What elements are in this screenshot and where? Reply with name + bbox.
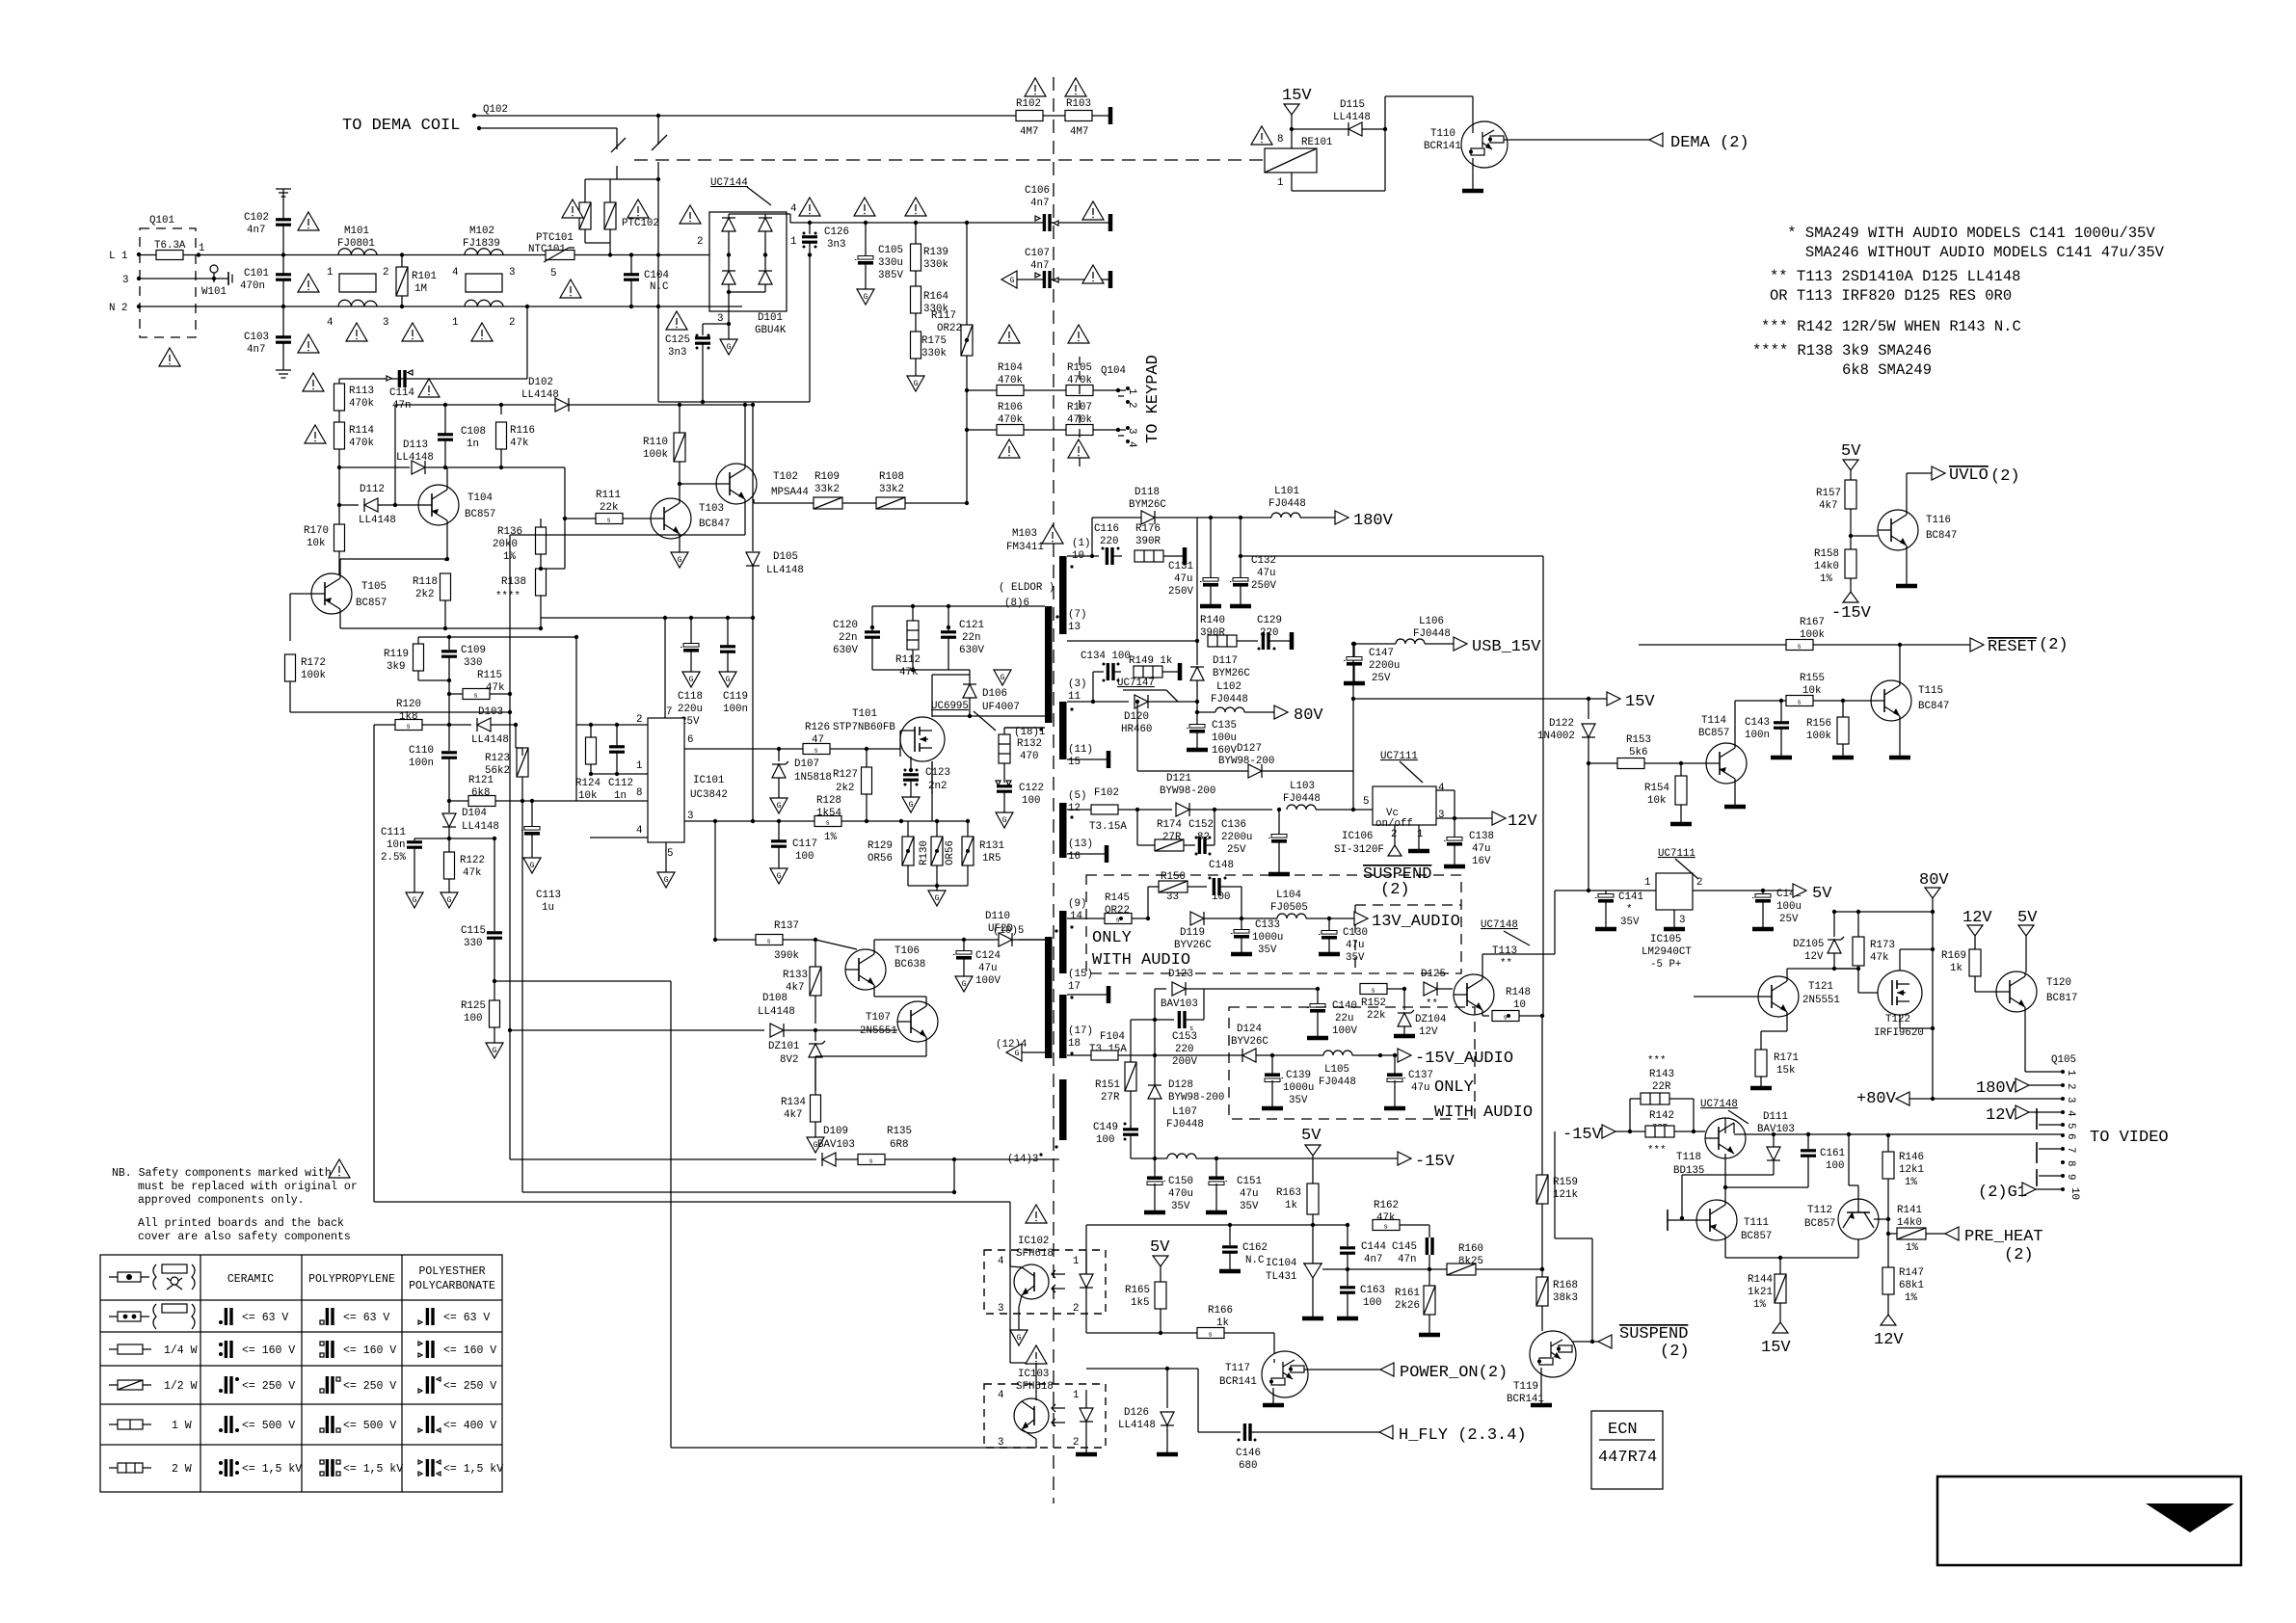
svg-text:9: 9	[2065, 1174, 2076, 1180]
wire pin2 row to left	[576, 725, 591, 801]
diode D104 LL4148	[442, 801, 499, 840]
svg-text:100: 100	[1826, 1160, 1844, 1172]
svg-text:STP7NB60FB: STP7NB60FB	[833, 722, 895, 733]
svg-text:(2)G1: (2)G1	[1978, 1184, 2027, 1202]
svg-text:C139: C139	[1286, 1070, 1311, 1081]
inductor L107 FJ0448	[1155, 1106, 1398, 1160]
capacitor C113 1u	[521, 799, 561, 914]
svg-text:2: 2	[1391, 829, 1397, 840]
resistor R142 22R ***	[1645, 1110, 1674, 1157]
capacitor C137 47u	[1384, 1053, 1433, 1108]
wire 180V rail drop to R159 column	[1542, 556, 1544, 1016]
inductor L106 FJ0448	[1352, 616, 1541, 656]
svg-text:330: 330	[464, 657, 482, 669]
capacitor C146 680	[1198, 1423, 1379, 1472]
svg-text:R145: R145	[1105, 892, 1130, 904]
svg-text:100k: 100k	[301, 670, 326, 681]
diode D103 LL4148	[449, 706, 518, 748]
svg-text:1: 1	[790, 236, 796, 248]
svg-text:C108: C108	[461, 426, 486, 438]
svg-text:C125: C125	[665, 334, 690, 346]
resistor R113 470k	[334, 379, 374, 422]
svg-text:T111: T111	[1744, 1217, 1769, 1229]
resistor R172 100k	[285, 641, 511, 712]
svg-text:R101: R101	[412, 271, 437, 282]
svg-text:13: 13	[1068, 622, 1081, 633]
resistor R114 470k	[334, 422, 374, 505]
svg-text:R174: R174	[1157, 819, 1182, 831]
svg-text:C145: C145	[1392, 1241, 1417, 1253]
svg-text:DZ104: DZ104	[1415, 1014, 1446, 1025]
svg-text:TO DEMA COIL: TO DEMA COIL	[342, 117, 460, 135]
svg-text:LL4148: LL4148	[471, 734, 509, 746]
svg-text:1000u: 1000u	[1252, 932, 1283, 944]
svg-text:SFH618: SFH618	[1016, 1248, 1054, 1260]
svg-text:4: 4	[998, 1390, 1003, 1401]
svg-text:5: 5	[667, 848, 673, 860]
transistor T110 BCR141	[1424, 121, 1649, 191]
svg-text:R167: R167	[1800, 617, 1825, 628]
svg-text:R102: R102	[1016, 98, 1041, 110]
diode D112 LL4148	[337, 484, 418, 526]
svg-text:8: 8	[636, 787, 642, 799]
svg-text:200V: 200V	[1172, 1056, 1197, 1068]
svg-text:3: 3	[2065, 1097, 2076, 1103]
svg-text:POWER_ON(2): POWER_ON(2)	[1400, 1364, 1508, 1382]
svg-text:R176: R176	[1135, 523, 1161, 535]
svg-text:14k0: 14k0	[1814, 561, 1839, 572]
svg-text:BAV103: BAV103	[1757, 1124, 1795, 1135]
transistor T103 BC847	[651, 484, 730, 568]
capacitor C149 100	[1093, 1122, 1155, 1158]
transistor T117 BCR141	[1219, 1351, 1380, 1405]
svg-text:ONLY: ONLY	[1434, 1078, 1474, 1097]
svg-text:C103: C103	[244, 332, 269, 343]
svg-text:C120: C120	[833, 620, 858, 631]
svg-text:C136: C136	[1221, 819, 1246, 831]
resistor R123 56k2	[485, 748, 528, 803]
svg-text:33k2: 33k2	[814, 484, 840, 495]
resistor R127 2k2	[833, 747, 872, 821]
svg-text:2n2: 2n2	[928, 781, 947, 792]
resistor R154 10k	[1644, 763, 1692, 824]
capacitor C140 22u 100V	[1307, 989, 1357, 1038]
resistor R126 47	[779, 722, 877, 756]
net POWER_ON(2)	[1380, 1363, 1508, 1382]
svg-text:<= 400 V: <= 400 V	[443, 1420, 496, 1432]
svg-text:C117: C117	[792, 838, 817, 850]
svg-text:15: 15	[1068, 757, 1081, 768]
svg-text:C114: C114	[389, 387, 414, 399]
svg-text:L106: L106	[1419, 616, 1444, 627]
svg-text:R119: R119	[384, 649, 409, 660]
wire Q102 down to relay contact	[652, 114, 667, 179]
svg-text:UC7144: UC7144	[710, 177, 748, 189]
svg-text:R146: R146	[1899, 1152, 1924, 1163]
wire TL431 ref row y=1317	[1322, 1268, 1448, 1270]
svg-text:T3.15A: T3.15A	[1089, 821, 1127, 833]
wire top row y661 (from T105 area)	[340, 628, 578, 725]
wire PTC top rail	[585, 177, 660, 181]
svg-text:* SMA249 WITH AUDIO MODELS C14: * SMA249 WITH AUDIO MODELS C141 1000u/35…	[1778, 225, 2155, 242]
diode D106 UF4007	[932, 684, 1045, 718]
svg-text:470u: 470u	[1168, 1188, 1193, 1200]
resistor R146 12k1 1%	[1882, 1135, 1924, 1219]
svg-text:LL4148: LL4148	[396, 452, 434, 464]
svg-text:16V: 16V	[1472, 856, 1491, 867]
svg-text:BYV26C: BYV26C	[1231, 1036, 1268, 1048]
svg-text:470: 470	[1020, 751, 1038, 762]
svg-text:LL4148: LL4148	[1333, 112, 1371, 123]
svg-text:<= 500 V: <= 500 V	[242, 1420, 295, 1432]
svg-text:4: 4	[790, 203, 796, 215]
svg-text:C101: C101	[244, 268, 269, 279]
svg-text:35V: 35V	[1258, 945, 1277, 956]
svg-text:TL431: TL431	[1266, 1271, 1296, 1283]
svg-text:H_FLY (2.3.4): H_FLY (2.3.4)	[1399, 1426, 1527, 1445]
svg-text:250V: 250V	[1251, 580, 1276, 592]
resistor R131 1R5	[962, 819, 1004, 886]
svg-text:FJ0448: FJ0448	[1211, 694, 1248, 705]
svg-text:C115: C115	[461, 925, 486, 937]
resistor R105 470k	[1066, 362, 1120, 396]
resistor R133 4k7	[783, 938, 821, 1024]
resistor R101 1M	[396, 253, 437, 308]
transistor T116 BC847	[1851, 473, 1957, 586]
svg-text:5V: 5V	[1301, 1127, 1322, 1145]
svg-text:80V: 80V	[1919, 871, 1949, 890]
svg-text:5V: 5V	[1150, 1238, 1170, 1257]
resistor R132 470	[999, 728, 1045, 783]
svg-text:R141: R141	[1897, 1205, 1922, 1216]
svg-text:C113: C113	[536, 890, 561, 901]
svg-text:3: 3	[998, 1303, 1003, 1315]
svg-text:1: 1	[1073, 1390, 1079, 1401]
svg-text:R169: R169	[1941, 950, 1966, 962]
resistor R176 390R	[1135, 523, 1185, 565]
svg-text:121k: 121k	[1553, 1189, 1578, 1201]
svg-text:UC6995: UC6995	[931, 701, 969, 712]
resistor R174 27R	[1137, 810, 1195, 851]
svg-text:FJ1839: FJ1839	[463, 238, 500, 250]
svg-text:17: 17	[1068, 981, 1081, 993]
transformer secondary winding 10-13	[1059, 556, 1067, 634]
svg-text:BC638: BC638	[894, 959, 925, 971]
svg-text:6k8 SMA249: 6k8 SMA249	[1752, 361, 1932, 379]
diode D119 BYV26C	[1174, 912, 1243, 951]
resistor R102 4M7	[1016, 98, 1043, 138]
svg-text:FJ0801: FJ0801	[337, 238, 375, 250]
capacitor C152 82	[1188, 810, 1215, 856]
svg-text:33k2: 33k2	[879, 484, 904, 495]
svg-text:12V: 12V	[1962, 909, 1992, 927]
svg-text:C111: C111	[381, 827, 406, 838]
5V supply T120	[2017, 909, 2038, 972]
svg-text:100: 100	[795, 851, 814, 863]
svg-text:R127: R127	[833, 769, 858, 781]
svg-text:UC7148: UC7148	[1700, 1099, 1738, 1110]
wire bottom loop of input	[658, 253, 812, 404]
svg-text:10n: 10n	[387, 839, 405, 851]
svg-text:D127: D127	[1237, 743, 1262, 755]
svg-text:IC105: IC105	[1650, 934, 1681, 945]
diode D123 BAV103	[1155, 969, 1320, 1055]
svg-text:LL4148: LL4148	[462, 821, 499, 833]
isolation barrier dashed lines	[634, 159, 1265, 161]
svg-text:1n: 1n	[467, 439, 479, 450]
svg-text:<= 500 V: <= 500 V	[343, 1420, 396, 1432]
capacitor C111 10n 2.5%	[381, 827, 449, 908]
svg-text:R123: R123	[485, 753, 510, 764]
svg-text:4: 4	[1126, 441, 1137, 447]
wire startup rail y485	[337, 466, 565, 519]
svg-text:s: s	[1189, 1025, 1193, 1033]
svg-text:25V: 25V	[1227, 844, 1246, 856]
svg-text:47k: 47k	[1870, 952, 1888, 964]
svg-text:1%: 1%	[824, 832, 837, 843]
svg-text:82: 82	[1197, 832, 1210, 843]
ground (IC102 emitter)	[1010, 1330, 1028, 1345]
svg-text:12k1: 12k1	[1899, 1164, 1924, 1176]
svg-text:T122: T122	[1885, 1014, 1910, 1025]
diode D102 LL4148	[521, 377, 753, 412]
svg-text:BYW98-200: BYW98-200	[1160, 785, 1215, 797]
svg-text:T119: T119	[1513, 1381, 1538, 1393]
transistor T119 BCR141	[1507, 1331, 1600, 1405]
svg-text:390k: 390k	[774, 950, 799, 962]
diode D127 BYW98-200	[1135, 642, 1355, 811]
capacitor C107 4n7 + ground arrow	[1001, 248, 1110, 288]
svg-text:ECN: ECN	[1608, 1421, 1638, 1439]
svg-text:C110: C110	[409, 745, 434, 757]
svg-text:D123: D123	[1168, 969, 1193, 980]
resistor R165 1k5	[1125, 1238, 1170, 1335]
inductor L104 FJ0505	[1241, 890, 1331, 920]
svg-text:D117: D117	[1213, 655, 1238, 667]
diode D124 BYV26C	[1231, 1024, 1323, 1062]
resistor R119 3k9	[384, 637, 449, 680]
wire C115 node right	[494, 981, 671, 1448]
svg-text:D121: D121	[1166, 773, 1191, 785]
svg-text:C163: C163	[1360, 1285, 1385, 1296]
svg-text:BAV103: BAV103	[1161, 998, 1198, 1010]
svg-text:3: 3	[717, 313, 723, 325]
warning triangles startup	[305, 425, 326, 443]
svg-text:C134 100: C134 100	[1081, 651, 1131, 662]
bridge rectifier D101 GBU4K	[697, 177, 796, 336]
svg-text:T105: T105	[361, 581, 387, 593]
dashed box ONLY WITH AUDIO (13V)	[1086, 875, 1461, 973]
capacitor C138 47u 16V	[1444, 818, 1494, 867]
capacitor C106 4n7	[1025, 185, 1110, 231]
svg-text:OR56: OR56	[868, 853, 893, 865]
svg-text:D111: D111	[1763, 1111, 1788, 1123]
svg-text:UC3842: UC3842	[690, 789, 728, 801]
svg-text:390R: 390R	[1200, 627, 1225, 639]
resistor R153 5k6	[1589, 734, 1706, 769]
svg-text:RE101: RE101	[1301, 137, 1332, 148]
antenna bar T111 base	[1668, 1210, 1696, 1231]
svg-text:+80V: +80V	[1856, 1090, 1897, 1108]
connector Q105 TO VIDEO	[2037, 1054, 2169, 1200]
svg-text:LL4148: LL4148	[521, 389, 559, 401]
svg-text:2200u: 2200u	[1369, 660, 1400, 672]
svg-text:BC847: BC847	[1926, 530, 1957, 542]
svg-text:4k7: 4k7	[786, 982, 804, 994]
svg-text:FJ0448: FJ0448	[1413, 628, 1451, 640]
svg-text:R139: R139	[923, 247, 948, 258]
wire T106 emitter to D110 row / C124	[962, 938, 1045, 942]
resistor R108 33k2	[754, 471, 969, 509]
svg-text:BYM26C: BYM26C	[1213, 668, 1250, 679]
svg-text:8: 8	[2065, 1160, 2076, 1166]
svg-text:4n7: 4n7	[247, 344, 265, 356]
svg-text:C147: C147	[1369, 648, 1394, 659]
svg-text:4M7: 4M7	[1070, 126, 1088, 138]
wire T111/T112 emitter row to R144	[1725, 1256, 1858, 1260]
svg-text:C141: C141	[1618, 891, 1643, 903]
svg-text:SMA246 WITHOUT AUDIO MODELS C1: SMA246 WITHOUT AUDIO MODELS C141 47u/35V	[1778, 244, 2165, 261]
svg-text:(11): (11)	[1068, 744, 1093, 756]
svg-text:UF4007: UF4007	[982, 702, 1020, 713]
svg-text:R113: R113	[349, 386, 374, 397]
svg-text:IRFI9620: IRFI9620	[1874, 1027, 1924, 1039]
svg-text:15k: 15k	[1776, 1065, 1795, 1077]
svg-text:OR22: OR22	[937, 323, 962, 334]
svg-text:DZ105: DZ105	[1793, 939, 1824, 950]
resistor R135 6R8	[858, 1126, 1059, 1166]
svg-text:OR22: OR22	[1105, 905, 1130, 917]
resistor R112 47k	[895, 621, 921, 678]
svg-text:100: 100	[1096, 1134, 1114, 1146]
svg-text:FM3411: FM3411	[1006, 542, 1044, 553]
resistor R159 121k	[1536, 1016, 1578, 1277]
transistor T115 BC847	[1871, 645, 1949, 758]
svg-text:OR56: OR56	[945, 840, 956, 865]
svg-text:F104: F104	[1100, 1031, 1125, 1043]
svg-text:4n7: 4n7	[247, 225, 265, 236]
svg-text:14: 14	[1070, 911, 1082, 922]
wire primary (12)4 to ground arrow	[1006, 1044, 1045, 1061]
svg-text:(1): (1)	[1072, 538, 1090, 549]
wire feedback bottom rail y=1383	[1086, 1332, 1197, 1334]
resistor R130 0R56 (vertical labels)	[919, 819, 956, 886]
svg-text:1: 1	[452, 317, 458, 329]
svg-text:C138: C138	[1469, 831, 1494, 842]
svg-text:3: 3	[1438, 810, 1444, 821]
svg-text:3: 3	[383, 317, 388, 329]
svg-text:1N5818: 1N5818	[794, 772, 832, 784]
svg-text:R163: R163	[1276, 1187, 1301, 1199]
capacitor C102	[244, 199, 291, 255]
svg-text:1/2 W: 1/2 W	[164, 1380, 198, 1393]
svg-text:100: 100	[464, 1013, 482, 1024]
IC101 UC3842	[576, 618, 779, 888]
svg-text:D101: D101	[758, 312, 783, 324]
svg-text:C149: C149	[1093, 1122, 1118, 1133]
svg-text:C140: C140	[1332, 1000, 1357, 1012]
svg-text:1R5: 1R5	[982, 853, 1001, 865]
capacitor C108 1n	[438, 414, 486, 467]
svg-text:630V: 630V	[833, 645, 858, 656]
resistor R139 330k	[911, 223, 948, 286]
svg-text:BCR141: BCR141	[1424, 141, 1461, 152]
svg-text:330k: 330k	[921, 348, 947, 359]
capacitor C145 47n	[1392, 1237, 1432, 1271]
ground (R175)	[907, 376, 924, 391]
svg-text:7: 7	[666, 706, 672, 718]
svg-text:2N5551: 2N5551	[1802, 995, 1840, 1006]
svg-text:UC7111: UC7111	[1658, 848, 1695, 860]
svg-text:R132: R132	[1017, 738, 1042, 750]
svg-text:100k: 100k	[1806, 731, 1831, 742]
svg-text:R110: R110	[643, 437, 668, 448]
wire opto bottom loop	[671, 1447, 1036, 1449]
wire relay to T110	[1385, 96, 1473, 129]
legend capacitor cells: polyesther column	[418, 1308, 503, 1477]
svg-text:2: 2	[1126, 402, 1137, 408]
svg-text:330k: 330k	[923, 259, 948, 271]
svg-text:ONLY: ONLY	[1092, 929, 1132, 947]
capacitor C116 220	[1094, 523, 1122, 565]
inductor L101 FJ0448	[1241, 486, 1394, 530]
svg-text:22k: 22k	[600, 502, 618, 514]
svg-text:8k25: 8k25	[1458, 1256, 1483, 1267]
svg-text:R137: R137	[774, 920, 799, 932]
svg-text:R130: R130	[919, 840, 930, 865]
capacitor C133 1000u 35V	[1231, 918, 1283, 956]
svg-text:22k: 22k	[1367, 1010, 1385, 1022]
svg-text:4n7: 4n7	[1364, 1254, 1382, 1265]
svg-text:C146: C146	[1236, 1448, 1261, 1459]
svg-text:16: 16	[1068, 851, 1081, 863]
svg-text:T110: T110	[1430, 128, 1455, 140]
svg-text:47n: 47n	[1398, 1254, 1416, 1265]
capacitor C119 100n	[719, 618, 748, 715]
svg-text:**** R138 3k9 SMA246: **** R138 3k9 SMA246	[1752, 342, 1932, 359]
svg-text:C133: C133	[1255, 919, 1280, 931]
transistor T121 2N5551	[1694, 969, 1840, 1050]
svg-text:R158: R158	[1814, 548, 1839, 560]
svg-text:**: **	[1500, 958, 1512, 970]
svg-text:47u: 47u	[1257, 568, 1275, 579]
svg-text:5: 5	[2065, 1123, 2076, 1129]
transistor T104 BC857	[418, 467, 495, 559]
diode D111 BAV103	[1680, 1111, 1795, 1220]
svg-text:4: 4	[327, 317, 333, 329]
resistor R109 33k2	[754, 471, 876, 509]
svg-text:RESET: RESET	[1988, 638, 2037, 656]
svg-text:C150: C150	[1168, 1176, 1193, 1187]
net 12V to pin4	[1986, 1105, 2063, 1125]
svg-text:80V: 80V	[1294, 706, 1323, 725]
svg-text:10k: 10k	[578, 790, 597, 802]
svg-text:1 W: 1 W	[172, 1420, 192, 1432]
resistor R121 6k8	[447, 775, 576, 807]
svg-text:1%: 1%	[1753, 1299, 1766, 1311]
resistor R144 1k21 1%	[1748, 1258, 1791, 1357]
diode D108 LL4148	[508, 993, 817, 1037]
svg-text:100n: 100n	[723, 704, 748, 715]
net +80V to pin3	[1856, 1090, 2063, 1108]
svg-text:220: 220	[1175, 1044, 1193, 1055]
svg-text:<= 63 V: <= 63 V	[242, 1312, 288, 1324]
svg-text:1: 1	[1277, 177, 1283, 189]
wire USB col down / 15V rail	[1353, 692, 1655, 711]
capacitor C110 100n	[409, 725, 457, 801]
svg-text:<= 63 V: <= 63 V	[343, 1312, 389, 1324]
svg-text:7: 7	[2065, 1147, 2076, 1153]
